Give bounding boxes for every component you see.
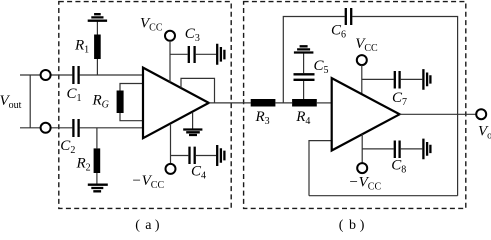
dashed box (b) [244, 2, 466, 209]
resistor R4 [292, 99, 317, 127]
wire output to Vo [400, 113, 477, 115]
wire branch to C7 [362, 78, 423, 80]
capacitor C2 [60, 119, 78, 156]
ground at C7 [423, 69, 430, 90]
ground below R2 [88, 185, 108, 192]
ground at C3 [217, 44, 224, 65]
svg-text:(a): (a) [135, 218, 160, 233]
capacitor C1 [67, 66, 82, 104]
wire VCC to op-amp (b) [361, 65, 363, 94]
ground above C5 [294, 46, 314, 52]
op-amp U2 [332, 78, 400, 150]
resistor R2 [76, 128, 101, 185]
capacitor C8 [391, 141, 406, 176]
wire feedback sense loop (a) [181, 78, 215, 103]
wire VCC branch to C3 [170, 53, 216, 55]
wire VCC to op-amp [169, 41, 171, 83]
capacitor C6 [331, 8, 351, 40]
svg-text:(b): (b) [339, 218, 365, 233]
wire C6 feedback loop [283, 17, 457, 196]
wire branch to C8 [362, 148, 422, 150]
ground above R1 [88, 14, 107, 21]
capacitor C3 [185, 26, 200, 63]
node Vo terminal [476, 109, 486, 119]
wire bottom input [20, 127, 143, 129]
ground at C4 [217, 145, 224, 166]
wire op-amp output to R3 [209, 102, 251, 104]
capacitor C5 [294, 54, 329, 100]
node VCC terminal (a) [165, 31, 175, 41]
node input terminal top [41, 70, 51, 80]
resistor R1 [74, 21, 101, 75]
capacitor C7 [392, 71, 407, 108]
wire -VCC to op-amp [170, 124, 172, 164]
node input terminal bottom [41, 123, 51, 133]
ground at op-amp ref [183, 112, 202, 135]
resistor R3 [251, 99, 276, 127]
capacitor C4 [190, 147, 207, 182]
wire R4 to op-amp [317, 102, 332, 104]
node -VCC terminal (a) [166, 164, 176, 174]
node -VCC terminal (b) [357, 163, 367, 173]
ground at C8 [423, 139, 430, 160]
wire source vertical [29, 75, 31, 128]
op-amp U1 [143, 68, 209, 139]
wire -VCC to op-amp (b) [361, 134, 363, 163]
wire R3 to R4 [275, 102, 292, 104]
wire top input [20, 74, 143, 76]
wire branch to C4 [171, 155, 217, 157]
dashed box (a) [59, 2, 231, 209]
resistor RG [92, 84, 144, 121]
node VCC terminal (b) [357, 55, 367, 65]
